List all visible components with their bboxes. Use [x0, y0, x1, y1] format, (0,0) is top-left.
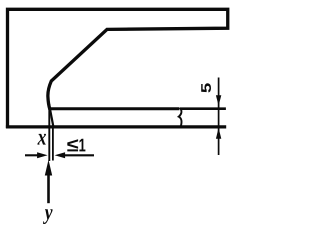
bottom edge line (workpiece and plate, flush): [6, 125, 226, 128]
label &le;1: [67, 139, 78, 151]
x dim left arrow shaft: [25, 154, 39, 156]
label x: [37, 134, 46, 145]
plate top edge right part: [181, 107, 226, 110]
label y: [43, 209, 53, 224]
dimension line for 5 (vertical): [218, 78, 220, 156]
label 5 (rotated): [201, 83, 211, 92]
plate top edge left part: [50, 107, 180, 110]
root face edge of upper workpiece: [50, 109, 53, 126]
y axis arrow shaft: [47, 175, 50, 203]
plate break squiggle: [179, 108, 182, 127]
y axis arrowhead: [45, 160, 52, 176]
extension line right (x dim): [52, 126, 54, 161]
x dim right arrowhead: [55, 152, 66, 158]
arrowhead down (5 dim, upper): [216, 95, 221, 106]
arrowhead up (5 dim, lower): [216, 128, 221, 139]
upper workpiece outline: [8, 9, 228, 128]
extension line left (x dim): [48, 104, 50, 161]
x dim left arrowhead: [37, 152, 48, 158]
x dim right arrow shaft: [64, 154, 94, 156]
